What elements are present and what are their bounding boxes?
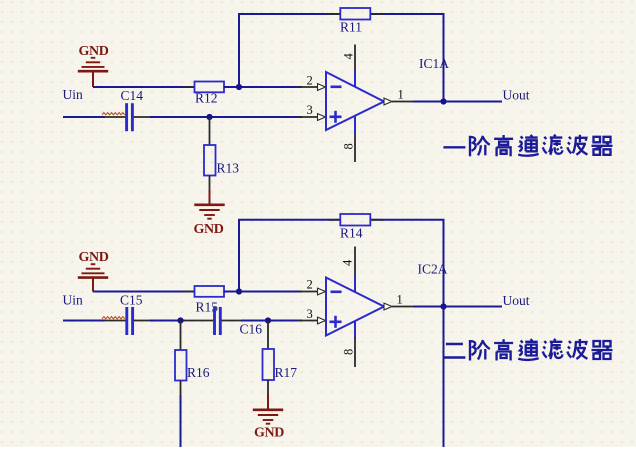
svg-text:4: 4 bbox=[342, 53, 356, 60]
svg-text:Uout: Uout bbox=[503, 88, 530, 103]
error squiggle (orange) bbox=[102, 113, 125, 115]
pin 3 (black) bbox=[297, 116, 318, 118]
svg-text:IC2A: IC2A bbox=[418, 262, 448, 277]
wire: feedback right side down to output bbox=[370, 14, 444, 102]
pin 4 bbox=[354, 247, 356, 277]
pin 8 bbox=[354, 134, 356, 163]
resistor R17 bbox=[267, 321, 269, 350]
svg-text:Uout: Uout bbox=[503, 293, 530, 308]
pin 8 bbox=[354, 337, 356, 367]
wire: R13 to ground bbox=[209, 176, 211, 192]
wire: pin-3 row left segment bbox=[63, 320, 105, 322]
caption: 二阶高通滤波器 (drawn) bbox=[443, 339, 612, 361]
wire: C15 to R16 junction bbox=[150, 320, 185, 322]
svg-text:R17: R17 bbox=[275, 365, 298, 380]
resistor R16 bbox=[180, 321, 182, 351]
node: junction feedback/pin2 bbox=[236, 288, 242, 294]
op-amp IC1A bbox=[326, 71, 384, 134]
ground GND (below R13) bbox=[194, 205, 224, 219]
caption: 一阶高通滤波器 (drawn) bbox=[443, 135, 612, 157]
svg-text:Uin: Uin bbox=[63, 293, 84, 308]
wire: feedback top horizontal (R11 loop) bbox=[239, 14, 341, 87]
bottom white strip bbox=[0, 447, 636, 452]
capacitor C15 bbox=[104, 320, 127, 322]
pin 2 (black) bbox=[297, 86, 318, 88]
wire: feedback top horizontal (R14 loop) bbox=[239, 220, 341, 292]
error squiggle (orange) bbox=[102, 317, 125, 319]
svg-text:GND: GND bbox=[254, 425, 284, 440]
wire: R17 to ground bbox=[267, 380, 269, 395]
wire: GND stub dark red bbox=[92, 72, 94, 87]
wire: pin-2 row from GND to R12 bbox=[93, 86, 195, 88]
wire: R15 to op-amp pin 2 bbox=[224, 291, 302, 293]
svg-text:2: 2 bbox=[307, 74, 313, 88]
node: output junction bbox=[440, 303, 446, 309]
wire: R16 down to edge bbox=[180, 381, 182, 397]
svg-text:3: 3 bbox=[307, 307, 313, 321]
pin 1 output bbox=[384, 303, 392, 310]
ground GND (below R17) bbox=[253, 410, 283, 424]
svg-text:GND: GND bbox=[79, 44, 109, 59]
svg-text:2: 2 bbox=[307, 278, 313, 292]
svg-text:1: 1 bbox=[397, 293, 403, 307]
ground GND (bottom circuit input) bbox=[78, 264, 108, 277]
node: output junction bbox=[440, 98, 446, 104]
pin 1 output bbox=[384, 98, 392, 105]
svg-text:C15: C15 bbox=[120, 293, 143, 308]
wire: feedback right side down to output bbox=[370, 220, 444, 307]
resistor R12 bbox=[183, 86, 195, 88]
capacitor C16 bbox=[184, 320, 214, 322]
node: junction R17 bbox=[265, 317, 271, 323]
wire: output feedback down to edge bbox=[443, 307, 445, 448]
svg-text:R13: R13 bbox=[217, 161, 240, 176]
wire: pin-3 row left segment bbox=[63, 116, 105, 118]
node: junction R13/pin3 bbox=[206, 114, 212, 120]
resistor R15 bbox=[183, 291, 195, 293]
wire: pin-3 row to op-amp bbox=[150, 116, 302, 118]
resistor R11 bbox=[328, 13, 340, 15]
wire: C16 to R17 junction to op-amp pin 3 bbox=[241, 320, 302, 322]
svg-text:GND: GND bbox=[79, 250, 109, 265]
svg-text:Uin: Uin bbox=[63, 87, 84, 102]
ground GND (top-left, above input wire) bbox=[78, 58, 108, 71]
svg-text:R11: R11 bbox=[340, 20, 362, 35]
resistor R14 bbox=[328, 219, 340, 221]
op-amp IC2A bbox=[326, 276, 384, 338]
svg-text:R16: R16 bbox=[187, 365, 210, 380]
svg-text:1: 1 bbox=[398, 88, 404, 102]
svg-text:4: 4 bbox=[341, 259, 355, 266]
node: junction feedback/pin2 bbox=[236, 84, 242, 90]
svg-text:C14: C14 bbox=[121, 88, 144, 103]
resistor R13 bbox=[209, 117, 211, 145]
svg-text:IC1A: IC1A bbox=[419, 56, 449, 71]
capacitor C14 bbox=[104, 116, 126, 118]
wire: R12 to junction to op-amp pin 2 bbox=[224, 86, 302, 88]
svg-text:GND: GND bbox=[194, 222, 224, 237]
svg-text:C16: C16 bbox=[240, 322, 263, 337]
svg-text:8: 8 bbox=[342, 143, 356, 149]
svg-text:3: 3 bbox=[307, 103, 313, 117]
pin 4 bbox=[354, 45, 356, 71]
wire: pin-2 row from GND to R15 bbox=[93, 291, 195, 293]
node: junction R16 bbox=[177, 317, 183, 323]
wire: output to Uout bbox=[413, 101, 502, 103]
svg-text:R14: R14 bbox=[340, 226, 363, 241]
svg-text:8: 8 bbox=[342, 349, 356, 355]
svg-text:R12: R12 bbox=[195, 91, 218, 106]
wire: output to Uout bbox=[413, 306, 502, 308]
